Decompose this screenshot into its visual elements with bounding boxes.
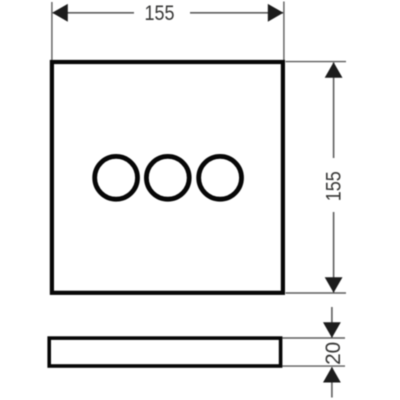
height dim arrow top [325, 62, 343, 78]
width dim line right segment [190, 12, 283, 14]
knob circle right [199, 156, 242, 199]
depth dim extension line top [283, 337, 346, 339]
svg-text:20: 20 [321, 342, 345, 365]
depth dim arrow up [323, 367, 341, 383]
side plate outline [49, 338, 280, 366]
depth dim line below [331, 367, 333, 397]
knob circle middle [146, 156, 189, 199]
width dim extension line right [283, 2, 285, 61]
height dim extension line top [286, 61, 347, 63]
front plate outline [52, 62, 283, 293]
width dim arrow left [52, 4, 68, 22]
width dim line left segment [53, 12, 134, 14]
height dim extension line bottom [286, 292, 347, 294]
height dim arrow bottom [325, 277, 343, 293]
width dim arrow right [268, 4, 284, 22]
height dim line lower segment [333, 212, 335, 293]
height dim line upper segment [333, 63, 335, 159]
knob circle left [95, 156, 138, 199]
width dim extension line left [51, 2, 53, 60]
depth dim arrow down [323, 322, 341, 338]
depth dim line above [331, 307, 333, 338]
svg-text:155: 155 [145, 2, 175, 25]
svg-text:155: 155 [323, 171, 346, 201]
depth dim extension line bottom [283, 365, 346, 367]
